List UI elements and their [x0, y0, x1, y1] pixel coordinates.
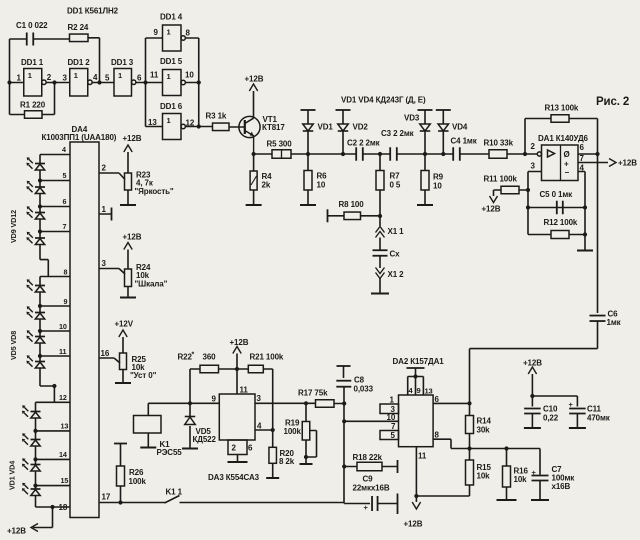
svg-text:13: 13 [148, 118, 157, 127]
svg-text:1: 1 [17, 74, 22, 83]
svg-text:DD1 6: DD1 6 [160, 102, 183, 111]
svg-text:12: 12 [186, 119, 195, 128]
svg-text:C1 0 022: C1 0 022 [16, 21, 48, 30]
svg-text:DD1 К561ЛН2: DD1 К561ЛН2 [67, 7, 119, 16]
svg-text:16: 16 [101, 349, 110, 358]
svg-text:5: 5 [105, 74, 110, 83]
svg-text:K1 1: K1 1 [166, 488, 183, 497]
svg-text:R3 1k: R3 1k [206, 112, 227, 121]
svg-text:1: 1 [167, 28, 171, 37]
svg-text:8: 8 [186, 29, 191, 38]
svg-text:VD1: VD1 [318, 123, 334, 132]
svg-text:2: 2 [232, 444, 237, 453]
svg-text:10k: 10k [477, 472, 491, 481]
svg-text:12: 12 [59, 393, 67, 402]
svg-text:VD1 VD4: VD1 VD4 [8, 461, 17, 490]
svg-text:1: 1 [390, 396, 395, 405]
svg-text:10k: 10k [514, 475, 528, 484]
svg-text:+12В: +12В [123, 233, 142, 242]
svg-text:0,22: 0,22 [543, 414, 559, 423]
svg-text:C8: C8 [354, 376, 365, 385]
svg-text:"Уст 0": "Уст 0" [130, 371, 157, 380]
svg-text:1мк: 1мк [607, 318, 622, 327]
svg-text:DD1 5: DD1 5 [160, 57, 183, 66]
svg-text:DA1 К140УД6: DA1 К140УД6 [538, 134, 589, 143]
svg-text:VD3: VD3 [404, 114, 420, 123]
svg-text:1: 1 [167, 116, 171, 125]
svg-text:8: 8 [435, 431, 440, 440]
svg-text:4: 4 [580, 164, 585, 173]
svg-text:+12В: +12В [230, 338, 249, 347]
svg-text:R18 22k: R18 22k [353, 453, 383, 462]
svg-text:VD9 VD12: VD9 VD12 [9, 210, 18, 243]
svg-text:*: * [192, 352, 195, 359]
svg-text:КТ817: КТ817 [262, 123, 285, 132]
svg-text:17: 17 [102, 493, 111, 502]
svg-text:DD1 4: DD1 4 [160, 13, 183, 22]
svg-text:x16В: x16В [552, 482, 571, 491]
svg-text:10: 10 [185, 71, 194, 80]
svg-text:360: 360 [203, 353, 217, 362]
svg-text:10: 10 [387, 413, 396, 422]
svg-text:X1 1: X1 1 [388, 227, 405, 236]
svg-text:15: 15 [61, 476, 69, 485]
svg-text:3: 3 [102, 259, 107, 268]
svg-text:R1 220: R1 220 [20, 101, 46, 110]
svg-text:3: 3 [531, 162, 536, 171]
svg-text:4: 4 [257, 422, 262, 431]
svg-text:9: 9 [417, 386, 421, 395]
svg-text:R21 100k: R21 100k [250, 353, 284, 362]
svg-text:1: 1 [102, 205, 107, 214]
svg-text:2k: 2k [262, 181, 271, 190]
svg-text:10: 10 [433, 182, 442, 191]
svg-text:5: 5 [391, 431, 396, 440]
svg-text:9: 9 [64, 297, 68, 306]
svg-text:КД522: КД522 [193, 435, 217, 444]
svg-text:10: 10 [59, 322, 67, 331]
svg-text:C3 2 2мк: C3 2 2мк [381, 129, 415, 138]
svg-text:14: 14 [59, 450, 67, 459]
svg-text:3: 3 [63, 74, 68, 83]
svg-text:VD2: VD2 [353, 123, 369, 132]
svg-text:1: 1 [28, 71, 32, 80]
svg-text:11: 11 [59, 347, 66, 356]
svg-text:0,033: 0,033 [354, 385, 374, 394]
svg-text:9: 9 [212, 395, 217, 404]
svg-text:6: 6 [137, 74, 142, 83]
svg-text:+12В: +12В [523, 359, 542, 368]
svg-text:R13 100k: R13 100k [545, 104, 579, 113]
svg-text:R17 75k: R17 75k [298, 389, 328, 398]
svg-text:11: 11 [240, 386, 249, 395]
svg-text:100k: 100k [284, 427, 302, 436]
svg-text:Рис. 2: Рис. 2 [596, 96, 629, 108]
svg-text:470мк: 470мк [587, 414, 611, 423]
svg-text:R5 300: R5 300 [267, 140, 293, 149]
svg-text:7: 7 [391, 422, 396, 431]
svg-text:+: + [364, 503, 369, 512]
svg-text:R12 100k: R12 100k [544, 218, 578, 227]
svg-text:X1 2: X1 2 [388, 270, 405, 279]
svg-text:R22: R22 [178, 353, 193, 362]
svg-text:30k: 30k [477, 426, 491, 435]
svg-text:C5 0 1мк: C5 0 1мк [540, 190, 574, 199]
svg-text:R10 33k: R10 33k [484, 139, 514, 148]
svg-text:3: 3 [257, 394, 262, 403]
svg-text:9: 9 [154, 28, 159, 37]
svg-text:11: 11 [418, 452, 427, 461]
svg-text:R14: R14 [477, 417, 492, 426]
svg-text:DD1 2: DD1 2 [68, 58, 91, 67]
svg-text:Ø: Ø [564, 150, 570, 159]
svg-text:1: 1 [118, 71, 122, 80]
svg-text:R2 24: R2 24 [68, 23, 89, 32]
svg-text:7: 7 [63, 222, 67, 231]
svg-text:R26: R26 [129, 468, 144, 477]
svg-text:11: 11 [150, 71, 159, 80]
svg-text:VD4: VD4 [452, 123, 468, 132]
svg-text:R9: R9 [433, 173, 444, 182]
svg-text:DD1 3: DD1 3 [111, 58, 134, 67]
svg-text:"Яркость": "Яркость" [135, 187, 174, 196]
svg-text:DD1 1: DD1 1 [21, 58, 44, 67]
svg-text:"Шкала": "Шкала" [135, 280, 168, 289]
svg-text:6: 6 [63, 197, 67, 206]
svg-text:DA2 К157ДА1: DA2 К157ДА1 [393, 357, 445, 366]
svg-text:+12В: +12В [482, 205, 501, 214]
svg-text:C4 1мк: C4 1мк [451, 137, 478, 146]
svg-text:DA3 К554СА3: DA3 К554СА3 [208, 473, 260, 482]
svg-text:C11: C11 [587, 405, 602, 414]
svg-text:6: 6 [580, 143, 585, 152]
svg-text:К1003ПП1 (UAA180): К1003ПП1 (UAA180) [42, 133, 117, 142]
svg-text:13: 13 [425, 387, 433, 396]
svg-text:R6: R6 [317, 172, 328, 181]
svg-text:8 2k: 8 2k [279, 457, 295, 466]
svg-text:13: 13 [61, 422, 69, 431]
svg-text:10: 10 [317, 181, 326, 190]
svg-text:+: + [569, 400, 574, 409]
svg-text:7: 7 [580, 154, 585, 163]
svg-text:6: 6 [435, 395, 440, 404]
svg-text:+12В: +12В [7, 527, 26, 536]
svg-text:C10: C10 [543, 405, 558, 414]
svg-text:18: 18 [59, 503, 68, 512]
svg-text:+12В: +12В [245, 75, 264, 84]
svg-text:100k: 100k [129, 477, 147, 486]
svg-text:8: 8 [64, 268, 68, 277]
svg-text:РЭС55: РЭС55 [157, 448, 183, 457]
svg-text:R11 100k: R11 100k [484, 175, 518, 184]
svg-text:VD1 VD4 КД243Г (Д, Е): VD1 VD4 КД243Г (Д, Е) [341, 96, 426, 105]
svg-text:R7: R7 [390, 172, 401, 181]
svg-text:6: 6 [248, 444, 253, 453]
svg-text:Cx: Cx [390, 250, 401, 259]
svg-text:−: − [565, 168, 570, 177]
svg-text:4: 4 [62, 145, 66, 154]
svg-text:2: 2 [102, 164, 107, 173]
svg-text:1: 1 [167, 72, 171, 81]
svg-text:VD5 VD8: VD5 VD8 [9, 331, 18, 360]
svg-text:22мкх16В: 22мкх16В [353, 484, 390, 493]
svg-text:+12В: +12В [618, 159, 637, 168]
svg-text:5: 5 [63, 171, 67, 180]
svg-text:0 5: 0 5 [390, 181, 401, 190]
svg-text:C9: C9 [363, 475, 374, 484]
svg-text:2: 2 [47, 73, 52, 82]
svg-text:4: 4 [93, 73, 98, 82]
svg-text:2: 2 [531, 142, 536, 151]
svg-text:1: 1 [74, 71, 78, 80]
svg-text:+12В: +12В [404, 520, 423, 529]
svg-text:R8 100: R8 100 [339, 200, 365, 209]
svg-text:+: + [532, 468, 537, 477]
svg-text:+12V: +12V [115, 320, 134, 329]
svg-text:C2 2 2мк: C2 2 2мк [347, 139, 381, 148]
svg-text:+12В: +12В [123, 134, 142, 143]
